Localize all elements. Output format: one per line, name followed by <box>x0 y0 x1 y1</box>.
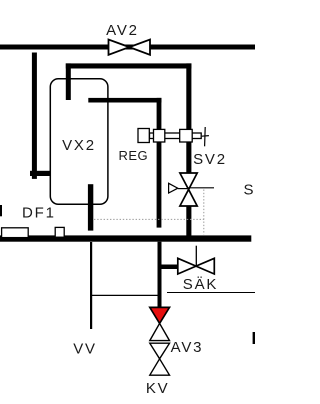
wire: thin tap line right of SV2 <box>189 187 214 189</box>
wire: thin line right of SAK <box>167 292 255 294</box>
wire: left riser upper segment <box>157 98 162 129</box>
svg-text:S: S <box>244 181 254 198</box>
valve KV <box>150 343 170 375</box>
actuator SV2 <box>169 183 189 193</box>
signal dashed vertical at SV2 <box>203 190 205 235</box>
svg-text:VX2: VX2 <box>62 137 96 154</box>
wire: left branch vertical from supply <box>32 53 37 179</box>
wire: AV3 riser below return line <box>158 242 162 308</box>
wire: SV2 riser upper segment <box>186 63 191 129</box>
valve AV3 <box>150 307 170 340</box>
svg-text:AV3: AV3 <box>171 339 204 356</box>
wire: vessel bottom drain pipe <box>88 184 93 230</box>
svg-text:KV: KV <box>146 380 170 397</box>
wire: top supply main line <box>0 45 255 50</box>
svg-text:SÄK: SÄK <box>183 276 218 293</box>
vessel VX2 <box>50 79 108 205</box>
valve SAK <box>178 258 215 274</box>
wire: bottom return main line <box>0 235 251 241</box>
valve AV2 <box>109 40 151 55</box>
wire: corner into vessel VX2 left side <box>30 171 66 176</box>
wire: stub to SAK valve <box>160 265 178 270</box>
svg-text:REG: REG <box>118 148 148 163</box>
wire: SV2 riser between REG and valve <box>186 142 191 173</box>
svg-text:AV2: AV2 <box>106 22 139 39</box>
valve SV2 <box>180 173 197 206</box>
wire: upper horizontal pipe to SV2 riser <box>66 63 192 68</box>
component DF1 strainer box <box>2 228 29 238</box>
wire: left riser lower segment <box>157 142 162 228</box>
signal dashed horizontal to drain pipe <box>94 218 204 220</box>
wire: thin horizontal drain link <box>90 294 158 296</box>
wire: vessel top inlet stub <box>66 63 71 100</box>
fragment at right edge <box>253 332 255 344</box>
svg-text:VV: VV <box>73 341 97 358</box>
controller REG assembly <box>138 127 209 146</box>
wire: SV2 riser below valve to return <box>186 206 191 237</box>
svg-text:SV2: SV2 <box>193 151 227 168</box>
component small port on return line <box>55 227 64 237</box>
wire: drain continuation below return line <box>90 242 92 329</box>
wire: vessel right outlet pipe <box>88 98 161 103</box>
svg-text:DF1: DF1 <box>22 204 56 221</box>
fragment at left edge <box>0 205 2 216</box>
actuator SAK <box>195 246 197 266</box>
